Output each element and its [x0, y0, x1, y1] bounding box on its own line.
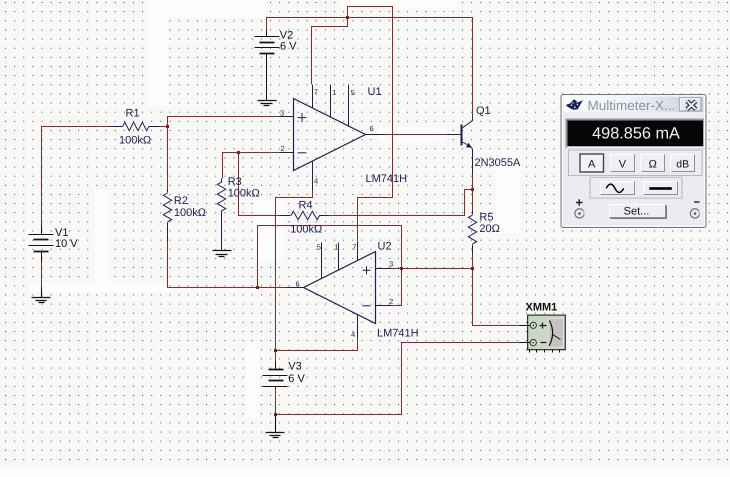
svg-text:1: 1: [332, 88, 336, 97]
svg-text:U2: U2: [378, 241, 392, 253]
wire stub XMM1 plus: [520, 325, 531, 327]
multimeter window Multimeter-X: [561, 95, 706, 228]
svg-text:2: 2: [389, 297, 393, 306]
wire V1 minus to ground: [41, 263, 43, 288]
svg-text:3: 3: [389, 260, 393, 269]
svg-text:2N3055A: 2N3055A: [475, 157, 522, 169]
svg-text:6 V: 6 V: [280, 41, 297, 53]
battery V2: [255, 31, 280, 101]
svg-text:5: 5: [351, 88, 355, 97]
svg-text:Q1: Q1: [476, 105, 491, 117]
wire V2 to V+ rail: [267, 18, 473, 117]
wire U2 pin2 to pin3 node: [392, 269, 402, 306]
transistor Q1: [447, 117, 473, 175]
svg-text:6: 6: [370, 124, 374, 133]
plus terminal jack: [575, 209, 584, 218]
wire U1 output to Q1 base: [386, 134, 447, 136]
resistor R5: [468, 211, 476, 255]
svg-text:100kΩ: 100kΩ: [119, 134, 151, 146]
wire node B to U1 pin2: [223, 153, 280, 179]
svg-text:7: 7: [314, 88, 318, 97]
svg-text:100kΩ: 100kΩ: [290, 224, 322, 236]
wire R5 bottom to node D: [472, 255, 474, 269]
button dB: [671, 154, 695, 172]
node rail junction: [346, 16, 349, 19]
svg-text:100kΩ: 100kΩ: [228, 188, 260, 200]
svg-text:100kΩ: 100kΩ: [174, 207, 206, 219]
node R5 bottom junction: [471, 267, 474, 270]
resistor R4: [281, 211, 329, 219]
wire node A down to R2: [167, 127, 169, 189]
svg-text:4: 4: [351, 330, 355, 339]
svg-text:LM741H: LM741H: [377, 328, 419, 340]
ground below V2: [258, 101, 277, 106]
button Ohm: [641, 154, 665, 172]
wire U2 pin4 to V3 node: [276, 339, 358, 351]
op-amp U2 (mirrored): [287, 243, 392, 339]
svg-text:1: 1: [335, 243, 339, 252]
wire Q1 emitter to R5: [472, 175, 474, 211]
svg-text:LM741H: LM741H: [366, 173, 408, 185]
node U2 pin3 junction: [400, 267, 403, 270]
svg-text:V3: V3: [288, 361, 301, 373]
svg-text:R2: R2: [174, 195, 188, 207]
op-amp U1: [280, 85, 386, 191]
resistor R3: [217, 179, 225, 251]
node A junction: [166, 125, 169, 128]
svg-text:20Ω: 20Ω: [479, 223, 499, 235]
svg-text:R4: R4: [299, 200, 313, 212]
multimeter XMM1 icon: [526, 302, 566, 353]
wire V3 minus to XMM1 minus: [276, 343, 521, 415]
svg-text:R5: R5: [479, 212, 493, 224]
svg-text:10 V: 10 V: [55, 238, 78, 250]
wire node B down to R4 left: [239, 153, 281, 216]
wire U1 pin4 to V3: [276, 191, 313, 362]
ground below R3: [213, 251, 232, 257]
wire R1 right to node A: [160, 126, 168, 128]
resistor R2: [163, 189, 171, 242]
svg-text:7: 7: [352, 243, 356, 252]
svg-text:Multimeter-X...: Multimeter-X...: [588, 98, 676, 113]
resistor R1: [111, 122, 160, 130]
svg-text:6 V: 6 V: [288, 373, 305, 385]
node V3 minus junction: [274, 413, 277, 416]
svg-text:R3: R3: [228, 176, 242, 188]
wire R2 bottom to U2 output: [168, 242, 287, 288]
svg-text:2: 2: [281, 144, 285, 153]
wire node A to U1 pin3: [168, 117, 280, 127]
svg-text:U1: U1: [368, 86, 382, 98]
button V: [611, 154, 635, 172]
wire rail jog to U1 pin7: [312, 18, 348, 85]
svg-text:5: 5: [317, 243, 321, 252]
svg-text:V: V: [619, 159, 627, 171]
svg-text:4: 4: [314, 177, 318, 186]
wire stub XMM1 minus: [520, 342, 531, 344]
ground below V1: [32, 288, 51, 303]
minus terminal label: [694, 201, 700, 203]
wire rail loop to U2 pin7: [348, 7, 393, 243]
wire feedback U2 pin3 node to U2 output: [258, 226, 402, 288]
button Set: [609, 205, 666, 219]
svg-text:6: 6: [296, 280, 300, 289]
battery V3: [263, 362, 288, 389]
node V3 plus junction: [274, 349, 277, 352]
svg-text:XMM1: XMM1: [526, 302, 558, 314]
svg-text:Set...: Set...: [624, 206, 650, 218]
button A (selected): [580, 154, 604, 172]
node B junction: [237, 151, 240, 154]
minus terminal jack: [690, 209, 699, 218]
wire V1 plus to R1: [42, 127, 111, 225]
button sine (AC): [600, 181, 635, 196]
ground below V3: [266, 415, 285, 438]
svg-text:3: 3: [280, 109, 284, 118]
node emitter junction: [471, 188, 474, 191]
plus terminal label: [576, 199, 583, 206]
group frame row2: [590, 177, 682, 198]
svg-text:dB: dB: [676, 159, 689, 171]
wire node D to U2 pin3: [392, 268, 473, 270]
node U2 output junction: [256, 286, 259, 289]
wire node D to XMM1 plus: [473, 269, 521, 326]
battery V1: [29, 225, 54, 263]
button line (DC): [643, 181, 678, 196]
wire R4 right to emitter node: [329, 190, 473, 216]
svg-text:498.856 mA: 498.856 mA: [592, 125, 680, 143]
svg-text:Ω: Ω: [649, 159, 657, 171]
svg-text:A: A: [588, 159, 596, 171]
svg-text:R1: R1: [126, 108, 140, 120]
